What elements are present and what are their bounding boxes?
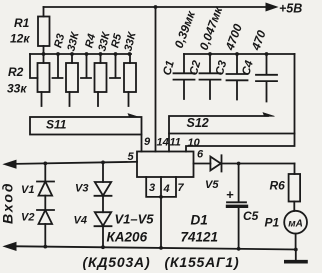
svg-text:7: 7	[178, 182, 185, 194]
diode V1	[37, 182, 54, 196]
wire V1-V2 link	[44, 196, 46, 210]
node R3 tap	[56, 52, 60, 56]
label C3	[214, 59, 230, 77]
node input top arrow	[4, 160, 16, 168]
node V1/input	[43, 162, 47, 166]
wire V4 bottom lead	[102, 226, 104, 247]
svg-text:V1: V1	[21, 184, 34, 196]
svg-text:S11: S11	[46, 118, 67, 132]
svg-text:+: +	[226, 187, 234, 202]
svg-text:5: 5	[128, 151, 135, 163]
resistor R2	[38, 63, 50, 92]
svg-text:R6: R6	[270, 179, 286, 193]
wire V2 bottom lead	[44, 224, 46, 247]
svg-text:(К155АГ1): (К155АГ1)	[165, 254, 240, 270]
wire +5V top rail	[44, 6, 268, 8]
svg-text:V1–V5: V1–V5	[115, 212, 155, 227]
node pins347	[159, 195, 163, 199]
wire R4 wiper tap	[81, 54, 91, 78]
label R4	[83, 27, 113, 53]
wire R2 bottom lead to S11 contact	[41, 92, 43, 106]
svg-text:Вход: Вход	[0, 181, 16, 224]
resistor R3	[66, 63, 78, 92]
resistor R1	[43, 7, 45, 17]
capacitor C1	[174, 54, 195, 99]
wire V5 to R6 branch	[222, 163, 295, 165]
capacitor C5	[227, 164, 246, 249]
svg-text:V2: V2	[21, 212, 34, 224]
svg-text:V4: V4	[74, 215, 87, 227]
wire R5 bottom lead to S11 contact	[128, 92, 130, 106]
wire resistor bus	[30, 53, 131, 55]
node C5/V5	[237, 162, 241, 166]
resistor R4	[95, 63, 107, 92]
svg-text:(КД503А): (КД503А)	[83, 254, 151, 270]
wire R3 wiper tap	[53, 54, 63, 78]
diode V3	[95, 182, 112, 196]
meter P1	[284, 211, 307, 234]
wire pin14 to +5V rail	[155, 7, 157, 152]
svg-text:С5: С5	[243, 209, 259, 223]
svg-text:мА: мА	[288, 219, 303, 230]
svg-text:4: 4	[163, 183, 170, 195]
svg-text:6: 6	[197, 149, 204, 161]
svg-text:33к: 33к	[7, 82, 27, 96]
node IC gnd/rail	[159, 246, 163, 250]
wire R2 wiper tap	[30, 54, 38, 78]
node V4/rail	[101, 245, 105, 249]
svg-text:D1: D1	[191, 213, 208, 228]
capacitor C3	[227, 54, 248, 100]
node V3/input	[101, 161, 105, 165]
label C4	[240, 59, 256, 77]
wire V3-V4 link	[102, 196, 104, 212]
resistor R5	[124, 63, 136, 92]
op-amp U1 : IC D1 74121 body	[137, 152, 194, 178]
svg-text:9: 9	[144, 136, 151, 148]
label R3	[52, 27, 82, 53]
svg-text:R1: R1	[14, 16, 30, 30]
wire R4 bottom lead to S11 contact	[97, 92, 99, 106]
svg-text:V5: V5	[205, 179, 219, 191]
svg-text:S12: S12	[187, 116, 209, 130]
svg-text:12к: 12к	[10, 32, 30, 46]
svg-text:74121: 74121	[181, 230, 219, 245]
wire S12 to pin11	[168, 134, 170, 152]
switch S11	[30, 117, 142, 135]
node C4 top	[265, 52, 269, 56]
resistor R6	[294, 164, 296, 175]
node R3 top	[70, 52, 74, 56]
capacitor C4	[256, 54, 277, 102]
svg-text:3: 3	[149, 182, 155, 194]
node C5/rail	[237, 247, 241, 251]
wire R3 bottom lead to S11 contact	[69, 92, 71, 106]
wire V3 top lead	[102, 162, 104, 182]
svg-text:Р1: Р1	[265, 216, 280, 230]
svg-text:11: 11	[170, 137, 181, 149]
label Vhod (input)	[0, 181, 16, 224]
wire IC pins 3,4,7 tie	[146, 177, 176, 197]
capacitor C2	[200, 54, 221, 99]
label C2	[188, 59, 204, 77]
node R4 tap	[85, 52, 89, 56]
node pin14/+5V	[154, 5, 158, 9]
svg-text:КА206: КА206	[107, 230, 148, 245]
switch S12	[169, 116, 295, 134]
node V2/rail	[43, 245, 47, 249]
svg-text:+5В: +5В	[279, 1, 302, 15]
wire capacitor top bus	[184, 53, 295, 55]
node R1/R2	[42, 52, 46, 56]
node +5V arrow	[266, 3, 277, 11]
node C2 top	[208, 52, 212, 56]
node R5 tap	[114, 52, 118, 56]
diode V4	[95, 212, 112, 226]
node C3 top	[235, 52, 239, 56]
wire bottom common rail	[8, 246, 296, 249]
node R4 top	[99, 52, 103, 56]
wire R5 wiper tap	[110, 54, 120, 78]
svg-text:10: 10	[188, 137, 201, 149]
wire S11 to pin9	[141, 135, 143, 152]
wire pins to ground rail	[160, 197, 162, 248]
node input bottom arrow	[4, 243, 16, 251]
svg-text:V3: V3	[75, 183, 88, 195]
wire V1 top lead	[44, 163, 46, 181]
diode V5	[210, 155, 221, 171]
wire input rail to pin5	[8, 162, 137, 164]
svg-text:R2: R2	[8, 65, 24, 79]
node R5 top	[128, 52, 132, 56]
diode V2	[37, 210, 54, 224]
node gnd/rail	[294, 248, 298, 252]
wire capacitor bus to pin10	[186, 54, 295, 152]
label R5	[109, 27, 139, 53]
svg-text:14: 14	[157, 137, 169, 149]
wire pin6 to V5	[194, 163, 211, 165]
label C1	[161, 59, 177, 76]
ground	[295, 250, 297, 261]
